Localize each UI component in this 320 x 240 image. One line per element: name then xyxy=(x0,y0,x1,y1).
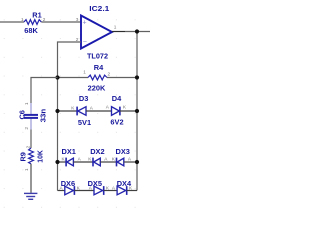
svg-text:33n: 33n xyxy=(38,108,47,122)
wire R4 left xyxy=(58,77,89,79)
wire DX1 row seg1 xyxy=(58,161,66,163)
svg-text:DX3: DX3 xyxy=(116,147,130,156)
svg-text:2: 2 xyxy=(24,127,29,130)
wire inverting input xyxy=(58,42,82,78)
diode D4 zener 6V2 xyxy=(106,94,127,126)
diode DX6 xyxy=(60,179,81,195)
wire op-amp output xyxy=(112,31,125,33)
node R4 left junction xyxy=(55,75,59,79)
resistor R4 xyxy=(83,63,110,93)
wire D3 row left xyxy=(58,110,77,112)
diode DX1 xyxy=(62,147,82,166)
svg-text:DX1: DX1 xyxy=(62,147,76,156)
svg-text:D4: D4 xyxy=(112,94,122,103)
node DX3 row right junction xyxy=(135,160,139,164)
node output junction xyxy=(135,29,139,33)
svg-text:+: + xyxy=(83,20,87,27)
node D3 row left junction xyxy=(55,109,59,113)
wire D3 to D4 xyxy=(86,110,112,112)
diode DX4 xyxy=(112,179,133,195)
wire R1 to op-amp non-inverting input xyxy=(41,21,81,23)
diode DX5 xyxy=(88,179,110,195)
svg-text:−: − xyxy=(83,39,87,46)
diode D3 zener 5V1 xyxy=(71,94,94,127)
svg-text:R9: R9 xyxy=(19,152,28,161)
svg-text:2: 2 xyxy=(25,145,30,148)
svg-text:R1: R1 xyxy=(32,11,41,20)
resistor R1 xyxy=(21,11,46,36)
node D4 row right junction xyxy=(135,109,139,113)
svg-text:68K: 68K xyxy=(24,26,38,35)
wire C6 to R9 xyxy=(30,130,32,149)
svg-text:3: 3 xyxy=(76,17,79,22)
node R4 right junction xyxy=(135,75,139,79)
wire DX4 row right xyxy=(127,190,137,192)
svg-text:220K: 220K xyxy=(88,84,106,93)
resistor R9 xyxy=(19,145,45,171)
svg-text:2: 2 xyxy=(76,37,79,42)
svg-text:1: 1 xyxy=(24,168,29,171)
wire R9 to ground xyxy=(30,164,32,193)
wire left bus xyxy=(57,78,59,191)
svg-text:5V1: 5V1 xyxy=(78,118,91,127)
wire C6 branch horizontal xyxy=(31,78,58,104)
capacitor C6 xyxy=(17,102,47,130)
svg-text:R4: R4 xyxy=(94,63,104,72)
svg-text:1: 1 xyxy=(24,102,29,105)
svg-text:DX6: DX6 xyxy=(61,179,75,188)
wire input net to R1 xyxy=(0,21,24,23)
wire R4 right xyxy=(107,77,137,79)
wire DX3 row right xyxy=(124,161,137,163)
wire right bus xyxy=(136,32,138,191)
wire DX6 row seg1 xyxy=(58,190,65,192)
svg-text:1: 1 xyxy=(83,70,86,75)
svg-text:10K: 10K xyxy=(35,149,44,162)
ground xyxy=(24,193,37,199)
wire D4 row right xyxy=(120,110,137,112)
diode DX3 xyxy=(112,147,132,166)
svg-text:TL072: TL072 xyxy=(87,52,108,61)
svg-text:D3: D3 xyxy=(79,94,88,103)
svg-text:1: 1 xyxy=(21,17,24,22)
op-amp IC2.1 xyxy=(76,4,117,61)
svg-text:DX2: DX2 xyxy=(90,147,104,156)
wire DX2 to DX3 xyxy=(100,161,116,163)
svg-text:2: 2 xyxy=(43,17,46,22)
svg-text:1: 1 xyxy=(114,25,117,30)
svg-text:6V2: 6V2 xyxy=(110,117,123,126)
svg-text:IC2.1: IC2.1 xyxy=(89,4,109,13)
wire DX5 to DX4 xyxy=(104,190,117,192)
svg-text:C6: C6 xyxy=(17,110,26,119)
svg-text:2: 2 xyxy=(108,72,111,77)
wire DX1 to DX2 xyxy=(73,161,92,163)
wire DX6 to DX5 xyxy=(74,190,94,192)
node DX1 row left junction xyxy=(55,160,59,164)
diode DX2 xyxy=(88,147,108,166)
